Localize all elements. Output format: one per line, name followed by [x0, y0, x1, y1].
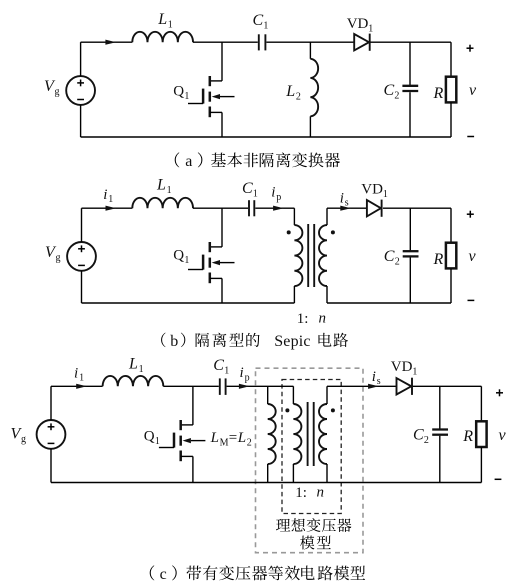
resistor R: [476, 421, 486, 447]
dashed box ideal transformer (inner): [282, 380, 341, 514]
transistor body arrow: [212, 260, 220, 265]
current arrow i1: [106, 206, 117, 211]
wire C1 to primary: [255, 207, 294, 209]
wire diode to corner: [371, 41, 452, 43]
transistor body arrow: [212, 94, 220, 99]
svg-text:2: 2: [424, 435, 429, 446]
wire C2 top lead: [439, 386, 441, 428]
wire primary bottom lead: [292, 464, 294, 483]
svg-text:1: 1: [383, 189, 388, 200]
capacitor C2: [403, 250, 419, 252]
wire C2 bottom lead: [409, 258, 411, 304]
svg-text:C: C: [242, 180, 253, 197]
wire right rail top: [450, 208, 452, 243]
transformer secondary winding: [319, 404, 327, 464]
wire LM bottom lead: [267, 464, 269, 483]
svg-text:1:: 1:: [295, 485, 307, 501]
svg-text:Q: Q: [173, 248, 184, 264]
wire gate lead: [159, 447, 174, 449]
wire C1 to diode: [266, 41, 354, 43]
wire top left: [82, 207, 133, 209]
source Vg: [66, 76, 95, 105]
capacitor C2: [432, 428, 448, 430]
wire C1 to primary: [227, 385, 294, 387]
wire primary top lead: [293, 208, 295, 225]
svg-text:2: 2: [394, 91, 399, 102]
wire left rail: [80, 42, 82, 76]
wire Q drain lead: [221, 208, 223, 247]
wire right rail bottom: [450, 268, 452, 303]
diode VD1: [354, 34, 369, 50]
wire top left: [81, 41, 133, 43]
transistor body arrow: [183, 438, 191, 443]
transformer core: [307, 224, 309, 287]
wire Q source lead: [210, 111, 222, 113]
wire primary top lead: [292, 386, 294, 404]
wire L1 to C1: [163, 385, 219, 387]
svg-text:i: i: [372, 369, 376, 385]
label output plus: [496, 392, 503, 394]
svg-text:a: a: [185, 153, 192, 170]
svg-text:1: 1: [412, 367, 417, 378]
svg-text:v: v: [499, 427, 507, 444]
transistor channel bars: [209, 242, 212, 252]
transformer primary winding: [294, 225, 302, 286]
current arrow i1: [76, 384, 87, 389]
transistor channel bars: [179, 420, 182, 430]
wire L1 to C1: [193, 41, 258, 43]
transformer secondary winding: [319, 225, 327, 286]
svg-text:i: i: [271, 185, 275, 201]
wire bottom rail primary side: [82, 302, 295, 304]
caption (c): [150, 565, 365, 583]
wire left rail: [50, 386, 52, 420]
wire secondary top lead: [326, 386, 328, 404]
svg-text:2: 2: [247, 438, 252, 449]
wire diode to corner: [413, 385, 482, 387]
svg-text:1: 1: [224, 366, 229, 377]
svg-text:n: n: [317, 485, 325, 501]
transistor gate bar: [202, 89, 205, 104]
svg-text:2: 2: [395, 257, 400, 268]
svg-text:1: 1: [253, 188, 258, 199]
resistor R: [446, 77, 456, 103]
current arrow is: [368, 384, 379, 389]
svg-text:M: M: [220, 438, 229, 449]
svg-text:i: i: [74, 366, 78, 382]
capacitor C1: [248, 200, 250, 216]
wire C2 top lead: [409, 208, 411, 250]
svg-text:1: 1: [368, 24, 373, 35]
svg-text:v: v: [469, 82, 477, 99]
svg-text:R: R: [433, 85, 444, 102]
transformer core: [307, 402, 309, 466]
svg-text:i: i: [103, 187, 107, 203]
polarity dot primary: [287, 230, 291, 234]
wire secondary bottom lead: [326, 286, 328, 303]
diode VD1: [367, 200, 381, 216]
capacitor C1: [258, 34, 260, 50]
label output minus: [468, 299, 475, 301]
transistor channel bars: [209, 76, 212, 86]
wire bottom rail: [81, 136, 451, 138]
inductor L2: [310, 59, 318, 117]
input current arrow: [105, 40, 116, 45]
svg-text:1: 1: [79, 373, 84, 384]
svg-text:VD: VD: [347, 16, 369, 32]
wire left rail: [81, 208, 83, 242]
transformer primary winding: [293, 404, 301, 464]
inductor L1: [132, 32, 193, 42]
svg-text:p: p: [276, 192, 281, 203]
wire diode to corner: [383, 207, 451, 209]
svg-text:1: 1: [168, 20, 173, 31]
svg-text:L: L: [157, 11, 167, 28]
wire gate lead: [188, 269, 203, 271]
wire body lead stub: [220, 262, 235, 264]
source Vg: [37, 420, 66, 449]
svg-text:g: g: [21, 434, 26, 445]
wire right rail bottom: [450, 102, 452, 137]
svg-text:L: L: [210, 430, 219, 446]
label output plus: [467, 47, 474, 49]
polarity dot secondary: [331, 230, 335, 234]
polarity dot primary: [285, 408, 289, 412]
svg-text:2: 2: [296, 92, 301, 103]
transistor gate bar: [202, 255, 205, 270]
label output plus: [467, 213, 474, 215]
wire bottom rail: [51, 482, 481, 484]
svg-text:Sepic: Sepic: [274, 333, 311, 350]
svg-text:g: g: [55, 87, 60, 98]
current arrow is: [340, 206, 351, 211]
svg-text:i: i: [340, 191, 344, 207]
svg-text:b: b: [170, 333, 178, 350]
diode VD1: [397, 378, 412, 394]
svg-text:VD: VD: [361, 182, 383, 198]
svg-text:p: p: [245, 373, 250, 384]
wire Q source lead: [210, 277, 222, 279]
inductor LM magnetizing winding: [268, 404, 276, 464]
svg-text:C: C: [384, 248, 395, 265]
wire C2 top lead: [409, 42, 411, 85]
svg-text:VD: VD: [391, 359, 413, 375]
wire secondary to diode: [327, 207, 367, 209]
wire Q drain lead: [192, 386, 194, 425]
svg-text:Q: Q: [144, 429, 155, 445]
svg-text:1: 1: [108, 194, 113, 205]
wire right rail bottom: [480, 447, 482, 483]
wire secondary top lead: [326, 208, 328, 225]
polarity dot secondary: [331, 408, 335, 412]
wire L2 bottom lead: [309, 116, 311, 137]
capacitor C2: [402, 85, 418, 87]
wire L2 top lead: [309, 42, 311, 59]
svg-text:1: 1: [139, 364, 144, 375]
label ideal transformer model text line1: [276, 518, 351, 532]
wire C2 bottom lead: [439, 436, 441, 483]
svg-text:i: i: [240, 365, 244, 381]
svg-text:1: 1: [167, 185, 172, 196]
wire body lead stub: [191, 440, 206, 442]
svg-text:L: L: [156, 177, 166, 194]
caption (a): [175, 152, 340, 170]
label output minus: [495, 478, 502, 480]
source Vg: [67, 242, 96, 271]
svg-text:s: s: [345, 198, 349, 209]
label output minus: [467, 136, 474, 138]
wire LM top lead: [267, 386, 269, 404]
current arrow ip: [239, 384, 250, 389]
svg-text:C: C: [384, 82, 395, 99]
svg-text:s: s: [377, 376, 381, 387]
svg-text:Q: Q: [173, 84, 184, 100]
svg-text:L: L: [237, 430, 246, 446]
label ideal transformer model text line2: [300, 536, 331, 550]
svg-text:C: C: [413, 427, 424, 444]
wire bottom rail secondary side: [327, 302, 451, 304]
caption (b): [161, 333, 348, 350]
svg-text:c: c: [160, 566, 167, 583]
wire right rail top: [450, 42, 452, 76]
svg-text:=: =: [229, 430, 237, 446]
resistor R: [446, 243, 456, 269]
inductor L1: [103, 376, 164, 386]
inductor L1: [132, 198, 193, 208]
svg-text:1: 1: [155, 436, 160, 447]
dashed box equivalent circuit (outer): [256, 368, 364, 553]
wire Q drain lead: [221, 42, 223, 81]
wire Q source lead: [181, 455, 193, 457]
svg-text:R: R: [462, 428, 473, 445]
wire gate lead: [188, 103, 203, 105]
capacitor C1: [219, 378, 221, 395]
svg-text:L: L: [285, 83, 295, 100]
svg-text:C: C: [213, 357, 224, 374]
svg-text:1: 1: [184, 91, 189, 102]
svg-text:L: L: [128, 355, 138, 372]
transistor gate bar: [173, 433, 176, 448]
current arrow ip: [273, 206, 284, 211]
wire secondary bottom lead: [326, 464, 328, 483]
wire top left: [51, 385, 103, 387]
svg-text:v: v: [469, 248, 477, 265]
svg-text:g: g: [56, 253, 61, 264]
wire L1 to C1: [193, 207, 248, 209]
svg-text:R: R: [433, 251, 444, 268]
svg-text:1:: 1:: [297, 311, 309, 327]
svg-text:n: n: [319, 311, 327, 327]
wire body lead stub: [220, 96, 235, 98]
wire C2 bottom lead: [409, 92, 411, 137]
wire secondary to diode: [327, 385, 397, 387]
svg-text:1: 1: [184, 255, 189, 266]
wire right rail top: [480, 386, 482, 421]
svg-text:1: 1: [263, 21, 268, 32]
svg-text:C: C: [253, 12, 264, 29]
wire primary bottom lead: [293, 286, 295, 303]
